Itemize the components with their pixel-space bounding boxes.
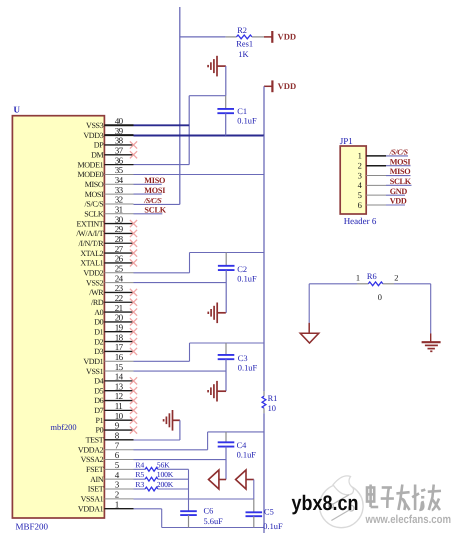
pin 22 /RD of U xyxy=(104,301,133,303)
pin 11 D7 of U xyxy=(104,409,133,411)
svg-text:MISO: MISO xyxy=(144,176,165,185)
pin 35 MODE0 of U xyxy=(104,173,133,175)
resistor R1 lead bottom xyxy=(263,408,265,413)
svg-text:22: 22 xyxy=(115,293,123,303)
pin 40 VSS3 of U xyxy=(104,124,133,126)
wire pin2 VSSA1 xyxy=(134,498,254,500)
wire pin1 drop x=161.7 xyxy=(161,509,163,528)
svg-text:27: 27 xyxy=(115,244,124,254)
capacitor C3 lead bottom xyxy=(225,359,227,391)
capacitor C5 (0.1uF) xyxy=(246,511,263,513)
pin 25 VDD2 of U xyxy=(104,272,133,274)
svg-text:GND: GND xyxy=(390,187,408,196)
wire SCS to vertical xyxy=(134,203,180,205)
svg-text:26: 26 xyxy=(115,254,124,264)
watermark circle icon xyxy=(320,476,364,528)
svg-text:0: 0 xyxy=(378,293,382,302)
svg-text:1K: 1K xyxy=(238,50,248,59)
wire pin15 VSS1 to C3 bottom xyxy=(134,370,227,372)
wire R6 right xyxy=(394,283,431,285)
resistor R6 lead right xyxy=(383,283,394,285)
pin 24 VSS2 of U xyxy=(104,282,133,284)
svg-text:MISO: MISO xyxy=(390,167,411,176)
wire R2 left segment xyxy=(180,36,226,38)
svg-text:5: 5 xyxy=(358,190,362,200)
svg-text:8: 8 xyxy=(115,431,120,441)
pin 16 VDD1 of U xyxy=(104,360,133,362)
resistor R1 (10) xyxy=(262,396,266,408)
svg-text:28: 28 xyxy=(115,234,124,244)
svg-text:U: U xyxy=(14,105,21,115)
svg-text:VDD3: VDD3 xyxy=(83,131,103,140)
svg-text:Res1: Res1 xyxy=(236,40,253,49)
svg-text:3: 3 xyxy=(358,170,362,180)
wire pin16 riser x=189.5 xyxy=(189,343,191,361)
svg-text:30: 30 xyxy=(115,214,124,224)
svg-text:23: 23 xyxy=(115,283,124,293)
wire pin1 VDDA1 xyxy=(134,508,162,510)
ground G1 (sideways, near C1) xyxy=(208,56,226,77)
svg-text:P1: P1 xyxy=(96,416,104,425)
pin 5 FSET of U xyxy=(104,468,133,470)
pin 32 /S/C/S of U xyxy=(104,203,133,205)
svg-text:10: 10 xyxy=(268,404,276,413)
svg-text:C4: C4 xyxy=(237,441,248,450)
svg-text:VDD2: VDD2 xyxy=(83,268,103,277)
svg-text:D4: D4 xyxy=(94,377,103,386)
svg-text:12: 12 xyxy=(115,391,123,401)
svg-text:39: 39 xyxy=(115,126,124,136)
svg-text:200K: 200K xyxy=(157,480,174,489)
wire pin35 MODE0 to VDD vertical xyxy=(134,174,265,176)
svg-text:4: 4 xyxy=(358,180,363,190)
pin 1 VDDA1 of U xyxy=(104,508,133,510)
resistor R5 (100K) at pin 4 xyxy=(134,478,146,480)
svg-text:/S/C/S: /S/C/S xyxy=(84,200,103,209)
pin 3 ISET of U xyxy=(104,488,133,490)
wire pin39 VDD3 heavy xyxy=(134,135,265,137)
ground G2 (sideways, below C2) xyxy=(208,303,226,324)
wire pin36 to VSS vertical xyxy=(134,164,190,166)
svg-text:TEST: TEST xyxy=(86,436,104,445)
pin 26 XTAL1 of U xyxy=(104,262,133,264)
svg-text:AIN: AIN xyxy=(90,475,104,484)
svg-text:C1: C1 xyxy=(237,107,247,116)
pin 23 /WR of U xyxy=(104,291,133,293)
svg-text:MODE1: MODE1 xyxy=(77,160,103,169)
wire pin40 to VSS vertical xyxy=(134,124,190,126)
pin 36 MODE1 of U xyxy=(104,164,133,166)
pin 4 AIN of U xyxy=(104,478,133,480)
svg-text:VSS3: VSS3 xyxy=(86,121,104,130)
svg-text:DM: DM xyxy=(91,150,103,159)
svg-text:VSSA1: VSSA1 xyxy=(81,495,104,504)
svg-text:VDDA1: VDDA1 xyxy=(78,504,104,513)
port arrow 1 (VSSA2 net) xyxy=(209,470,227,489)
pin 28 /I/N/T/R of U xyxy=(104,242,133,244)
resistor R2 lead left xyxy=(226,36,237,38)
earth ground (triangle) below R6 pin1 xyxy=(300,323,319,343)
svg-text:/WR: /WR xyxy=(89,288,104,297)
pin 13 D5 of U xyxy=(104,390,133,392)
wire pin6 VSSA2 to C4 bottom xyxy=(134,459,227,461)
svg-text:32: 32 xyxy=(115,195,123,205)
svg-text:R3: R3 xyxy=(135,480,144,489)
svg-text:SCLK: SCLK xyxy=(390,177,412,186)
power port VDD (second) xyxy=(264,80,272,92)
svg-text:2: 2 xyxy=(115,490,119,500)
svg-text:40: 40 xyxy=(115,116,124,126)
pin 20 D0 of U xyxy=(104,321,133,323)
svg-text:DP: DP xyxy=(94,141,104,150)
svg-text:11: 11 xyxy=(115,401,123,411)
svg-text:1: 1 xyxy=(356,273,360,282)
svg-text:31: 31 xyxy=(115,204,123,214)
svg-text:34: 34 xyxy=(115,175,124,185)
pin 10 P1 of U xyxy=(104,419,133,421)
svg-text:D1: D1 xyxy=(94,327,103,336)
capacitor C2 (0.1uF) xyxy=(218,265,235,267)
svg-text:6: 6 xyxy=(358,200,363,210)
svg-text:35: 35 xyxy=(115,165,124,175)
wire ground horizontal y=95.7 xyxy=(189,95,226,97)
svg-text:3: 3 xyxy=(115,480,120,490)
wire pin7 riser x=207.6 xyxy=(207,432,209,450)
svg-text:SCLK: SCLK xyxy=(144,206,166,215)
pin 2 VSSA1 of U xyxy=(104,498,133,500)
svg-text:MBF200: MBF200 xyxy=(16,522,49,532)
svg-text:VSS2: VSS2 xyxy=(86,278,104,287)
svg-text:2: 2 xyxy=(358,161,362,171)
capacitor C5 lead top xyxy=(253,499,255,512)
svg-text:10: 10 xyxy=(115,411,124,421)
pin 31 SCLK of U xyxy=(104,213,133,215)
wire R6 left drop x=309.2 xyxy=(308,284,310,323)
resistor R4 (56K) at pin 5 xyxy=(134,468,146,470)
svg-text:0.1uF: 0.1uF xyxy=(237,451,257,460)
svg-text:36: 36 xyxy=(115,155,124,165)
wire pin7 VDDA2 xyxy=(134,449,208,451)
wire MISO stub xyxy=(134,183,162,185)
svg-text:R1: R1 xyxy=(268,394,278,403)
ground G4 (sideways, at TEST pin) xyxy=(164,410,180,431)
capacitor C5 lead bottom xyxy=(253,516,255,527)
ground G3 (sideways, below C3) xyxy=(208,381,226,402)
pin 6 of JP1, net VDD xyxy=(366,204,386,206)
pin 39 VDD3 of U xyxy=(104,134,133,136)
power port VDD (top, at R2) xyxy=(264,31,272,43)
pin 2 of JP1, net MOSI xyxy=(366,165,386,167)
svg-text:R2: R2 xyxy=(237,26,247,35)
svg-text:29: 29 xyxy=(115,224,124,234)
wire VDD drop (x=264) xyxy=(263,86,265,135)
wire MOSI stub xyxy=(134,193,162,195)
svg-text:/W/A/I/T: /W/A/I/T xyxy=(76,229,103,238)
capacitor C2 lead top xyxy=(225,253,227,266)
wire arrow2 drop x=253.8 xyxy=(253,480,255,500)
svg-text:5.6uF: 5.6uF xyxy=(204,517,224,526)
wire pin25 riser x=189.5 xyxy=(189,253,191,273)
wire pin16 VDD1 xyxy=(134,360,190,362)
svg-text:19: 19 xyxy=(115,322,124,332)
svg-text:VDD: VDD xyxy=(390,197,407,206)
svg-text:VDD1: VDD1 xyxy=(83,357,103,366)
pin 12 D6 of U xyxy=(104,400,133,402)
svg-text:ISET: ISET xyxy=(88,485,104,494)
wire R6 right drop x=430.7 xyxy=(430,284,432,334)
resistor R1 lead top xyxy=(263,391,265,396)
svg-text:21: 21 xyxy=(115,303,123,313)
watermark text dianzifashaoyou xyxy=(367,485,441,511)
resistor R3 (200K) at pin 3 xyxy=(134,488,146,490)
pin 21 A0 of U xyxy=(104,311,133,313)
svg-text:EXTINT: EXTINT xyxy=(77,219,104,228)
svg-text:4: 4 xyxy=(115,470,120,480)
svg-text:VDD: VDD xyxy=(278,32,297,42)
svg-text:Header 6: Header 6 xyxy=(344,216,377,226)
wire vertical net R2/SCS (x=180) xyxy=(179,7,181,204)
svg-text:0.1uF: 0.1uF xyxy=(237,117,257,126)
svg-text:1: 1 xyxy=(358,151,362,161)
pin 14 D4 of U xyxy=(104,380,133,382)
pin 18 D2 of U xyxy=(104,341,133,343)
svg-text:A0: A0 xyxy=(94,308,103,317)
svg-text:18: 18 xyxy=(115,332,124,342)
capacitor C4 lead bottom xyxy=(225,447,227,480)
pin 33 MOSI of U xyxy=(104,193,133,195)
svg-text:MOSI: MOSI xyxy=(85,190,104,199)
pin 17 D3 of U xyxy=(104,350,133,352)
capacitor C6 (5.6uF) xyxy=(180,510,197,512)
svg-text:D2: D2 xyxy=(94,337,103,346)
svg-text:D0: D0 xyxy=(94,318,103,327)
wire pin25 VDD2 xyxy=(134,272,190,274)
capacitor C1 lead bottom xyxy=(225,113,227,135)
wire pin8 TEST xyxy=(134,439,180,441)
svg-text:7: 7 xyxy=(115,440,120,450)
IC U MBF200 body xyxy=(12,116,104,518)
wire VSS vertical (x=189.2) xyxy=(188,96,190,165)
pin 30 EXTINT of U xyxy=(104,223,133,225)
svg-text:37: 37 xyxy=(115,145,124,155)
resistor R6 lead left xyxy=(357,283,368,285)
svg-text:VDDA2: VDDA2 xyxy=(78,445,104,454)
svg-text:0.1uF: 0.1uF xyxy=(263,522,283,531)
svg-text:1: 1 xyxy=(115,499,119,509)
capacitor C3 (0.1uF) xyxy=(218,354,235,356)
svg-text:R6: R6 xyxy=(367,272,377,281)
pin 3 of JP1, net MISO xyxy=(366,175,386,177)
pin 27 XTAL2 of U xyxy=(104,252,133,254)
svg-text:2: 2 xyxy=(394,274,398,283)
port arrow 2 (VSSA1 net) xyxy=(236,470,254,489)
svg-text:/RD: /RD xyxy=(91,298,104,307)
pin 19 D1 of U xyxy=(104,331,133,333)
capacitor C1 (0.1uF) xyxy=(217,108,234,110)
svg-text:SCLK: SCLK xyxy=(84,209,104,218)
svg-text:/I/N/T/R: /I/N/T/R xyxy=(79,239,105,248)
svg-text:VSSA2: VSSA2 xyxy=(81,455,104,464)
svg-text:20: 20 xyxy=(115,313,124,323)
pin 5 of JP1, net GND xyxy=(366,194,386,196)
capacitor C1 lead top xyxy=(225,96,227,109)
connector JP1 body (Header 6) xyxy=(340,146,366,214)
capacitor C6 lead top xyxy=(188,510,190,512)
svg-text:XTAL2: XTAL2 xyxy=(80,249,103,258)
svg-text:C3: C3 xyxy=(238,354,248,363)
pin 38 DP of U xyxy=(104,144,133,146)
svg-text:9: 9 xyxy=(115,421,120,431)
capacitor C3 lead top xyxy=(225,343,227,355)
svg-text:MOSI: MOSI xyxy=(390,157,411,166)
pin 7 VDDA2 of U xyxy=(104,449,133,451)
svg-text:www.elecfans.com: www.elecfans.com xyxy=(365,514,451,526)
svg-text:25: 25 xyxy=(115,263,124,273)
svg-text:ybx8.cn: ybx8.cn xyxy=(292,492,359,515)
pin 6 VSSA2 of U xyxy=(104,459,133,461)
wire R6 left xyxy=(309,283,357,285)
resistor R2 (Res1 1K) xyxy=(237,35,252,39)
power ground (bars) below R6 pin2 xyxy=(422,333,441,351)
wire C2 jog horizontal y=252.5 xyxy=(190,252,265,254)
svg-text:P0: P0 xyxy=(96,426,104,435)
capacitor C2 lead bottom xyxy=(225,270,227,313)
svg-text:R5: R5 xyxy=(135,470,144,479)
capacitor C4 lead top xyxy=(225,432,227,442)
svg-text:15: 15 xyxy=(115,362,124,372)
svg-text:D5: D5 xyxy=(94,386,103,395)
svg-text:D6: D6 xyxy=(94,396,103,405)
pin 15 VSS1 of U xyxy=(104,370,133,372)
wire R-group vertical x=188.5 xyxy=(188,469,190,511)
svg-text:MODE0: MODE0 xyxy=(77,170,103,179)
svg-text:FSET: FSET xyxy=(86,465,104,474)
svg-text:16: 16 xyxy=(115,352,124,362)
svg-text:mbf200: mbf200 xyxy=(51,423,77,432)
svg-text:38: 38 xyxy=(115,136,124,146)
svg-text:6: 6 xyxy=(115,450,120,460)
wire TEST riser x=179.9 xyxy=(179,420,181,440)
svg-text:VDD: VDD xyxy=(278,81,297,91)
svg-text:24: 24 xyxy=(115,273,124,283)
pin 37 DM of U xyxy=(104,154,133,156)
svg-text:D7: D7 xyxy=(94,406,103,415)
pin 34 MISO of U xyxy=(104,183,133,185)
svg-text:14: 14 xyxy=(115,372,124,382)
svg-text:5: 5 xyxy=(115,460,120,470)
svg-text:JP1: JP1 xyxy=(340,136,353,146)
svg-text:R4: R4 xyxy=(135,460,144,469)
svg-text:/S/C/S: /S/C/S xyxy=(389,148,408,157)
svg-text:C6: C6 xyxy=(204,507,214,516)
wire C3 jog horizontal y=343 xyxy=(190,342,265,344)
svg-text:100K: 100K xyxy=(157,470,174,479)
svg-text:56K: 56K xyxy=(157,460,170,469)
svg-text:33: 33 xyxy=(115,185,124,195)
svg-text:D3: D3 xyxy=(94,347,103,356)
pin 8 TEST of U xyxy=(104,439,133,441)
svg-text:MOSI: MOSI xyxy=(144,186,165,195)
svg-text:0.1uF: 0.1uF xyxy=(237,274,257,283)
svg-text:/S/C/S: /S/C/S xyxy=(143,196,161,205)
resistor R6 (0 ohm) xyxy=(368,282,383,286)
capacitor C4 (0.1uF) xyxy=(218,441,235,443)
pin 9 P0 of U xyxy=(104,429,133,431)
svg-text:0.1uF: 0.1uF xyxy=(238,363,258,372)
wire pin24 VSS2 to C2 bottom xyxy=(134,282,227,284)
svg-text:MISO: MISO xyxy=(85,180,104,189)
wire VDD spine upper (x=264) xyxy=(263,136,265,392)
resistor R2 lead right xyxy=(252,36,264,38)
wire bottom rail y=527.5 xyxy=(162,527,264,529)
wire ground G1 down xyxy=(225,66,227,96)
capacitor C6 lead bottom xyxy=(188,515,190,527)
svg-text:XTAL1: XTAL1 xyxy=(80,259,103,268)
wire C4 jog horizontal y=431.9 xyxy=(208,431,264,433)
svg-text:C2: C2 xyxy=(237,265,247,274)
pin 4 of JP1, net SCLK xyxy=(366,184,386,186)
wire SCLK stub xyxy=(134,213,163,215)
svg-text:VSS1: VSS1 xyxy=(86,367,104,376)
svg-text:13: 13 xyxy=(115,381,124,391)
pin 29 /W/A/I/T of U xyxy=(104,232,133,234)
wire VDD spine lower (x=264) xyxy=(263,413,265,533)
pin 1 of JP1, net /S/C/S xyxy=(366,155,386,157)
svg-text:17: 17 xyxy=(115,342,124,352)
svg-text:C5: C5 xyxy=(264,507,274,516)
